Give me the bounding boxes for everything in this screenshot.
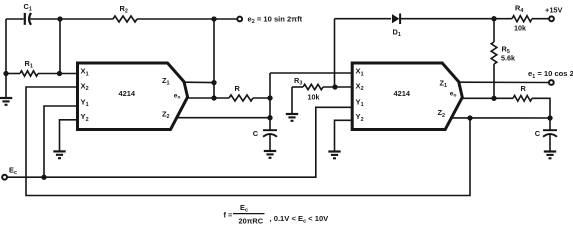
svg-text:C: C bbox=[253, 129, 259, 138]
svg-text:5.6k: 5.6k bbox=[501, 54, 515, 63]
svg-text:R: R bbox=[235, 84, 241, 93]
svg-text:10k: 10k bbox=[308, 93, 320, 102]
svg-text:4214: 4214 bbox=[119, 89, 136, 98]
svg-text:10k: 10k bbox=[514, 24, 526, 33]
svg-text:4214: 4214 bbox=[394, 89, 411, 98]
svg-text:20πRC: 20πRC bbox=[239, 216, 264, 225]
svg-text:R: R bbox=[521, 84, 527, 93]
svg-text:+15V: +15V bbox=[545, 5, 563, 14]
svg-text:, 0.1V < Ec < 10V: , 0.1V < Ec < 10V bbox=[270, 214, 330, 225]
svg-text:f =: f = bbox=[224, 211, 234, 220]
svg-text:C: C bbox=[535, 129, 541, 138]
